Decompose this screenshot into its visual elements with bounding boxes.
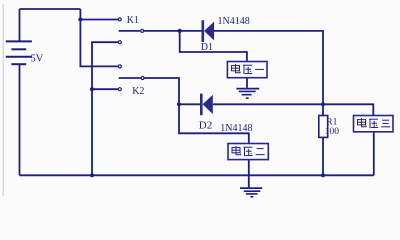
switch K2 lever arm <box>119 77 141 79</box>
wire D2 anode to output node and voltmeter 3 <box>213 104 373 115</box>
switch K2 pole contact <box>141 77 144 80</box>
压 <box>244 147 253 156</box>
svg-text:K2: K2 <box>132 86 144 97</box>
一 <box>255 68 264 70</box>
node dot A/K1 stub <box>78 17 82 21</box>
三 <box>381 120 390 127</box>
ground symbol under voltmeter 2 <box>240 188 262 197</box>
wire voltmeter2 bottom to ground symbol <box>248 160 250 188</box>
ground symbol under voltmeter 1 <box>236 89 259 99</box>
压 <box>243 65 252 74</box>
battery 5V stem top <box>19 9 21 41</box>
电 <box>358 118 367 127</box>
node dot R1/ground rail <box>321 173 325 177</box>
svg-text:D2: D2 <box>199 119 212 131</box>
voltmeter box 电压一 <box>227 62 267 78</box>
battery stem bottom <box>19 64 21 175</box>
switch K1 lever arm <box>119 30 141 32</box>
battery BT 5V plates <box>6 41 32 64</box>
diode D1 cathode bar <box>202 20 205 42</box>
svg-text:K1: K1 <box>127 15 139 26</box>
node dot K2/D2 branch <box>177 102 181 106</box>
wire voltmeter3 bottom to ground rail <box>373 132 375 176</box>
wire D1 anode to right column <box>214 31 323 116</box>
left page edge artifact <box>2 4 4 196</box>
switch K1 lower throw contact <box>118 41 121 44</box>
diode D2 triangle <box>203 95 213 114</box>
node dot B/K2 stub <box>90 87 94 91</box>
node dot B/ground rail <box>90 173 94 177</box>
wire node K2/D2 branch to voltmeter 2 <box>179 104 249 143</box>
wire +5V column A down to K2 upper throw stub <box>80 9 118 66</box>
diode D1 triangle <box>204 22 214 41</box>
wire top rail from battery to node A column <box>20 8 81 10</box>
wire stub B to K2 lower throw <box>92 88 118 90</box>
wire K1 pole to diode D1 cathode <box>144 30 202 32</box>
voltmeter box 电压三 <box>354 116 394 132</box>
switch K1 upper throw contact <box>118 18 121 21</box>
wire voltmeter1 bottom to ground symbol <box>246 78 248 88</box>
voltmeter box 电压二 <box>228 144 268 160</box>
wire K2 pole to D2 cathode <box>145 78 200 104</box>
电 <box>232 64 241 73</box>
svg-text:1N4148: 1N4148 <box>220 123 252 134</box>
svg-text:1N4148: 1N4148 <box>218 16 250 27</box>
wire bottom ground rail <box>20 174 374 176</box>
switch K2 upper throw contact <box>118 65 121 68</box>
diode D2 cathode bar <box>200 94 203 116</box>
压 <box>369 119 378 128</box>
node dot output/R1 <box>321 102 325 106</box>
电 <box>232 146 241 155</box>
wire stub A to K1 upper throw <box>80 19 118 21</box>
svg-text:D1: D1 <box>201 42 213 53</box>
wire node K1/D1 branch to voltmeter 1 <box>180 31 247 62</box>
resistor R1 body <box>319 116 328 138</box>
wire R1 bottom lead to ground rail <box>322 137 324 175</box>
svg-text:100: 100 <box>325 127 340 137</box>
switch K2 lower throw contact <box>118 88 121 91</box>
node dot K1 pole branch <box>178 29 182 33</box>
二 <box>256 149 265 155</box>
switch K1 pole contact <box>141 29 144 32</box>
svg-text:5V: 5V <box>31 53 44 64</box>
wire ground column B with K1 lower throw stub <box>92 42 118 175</box>
